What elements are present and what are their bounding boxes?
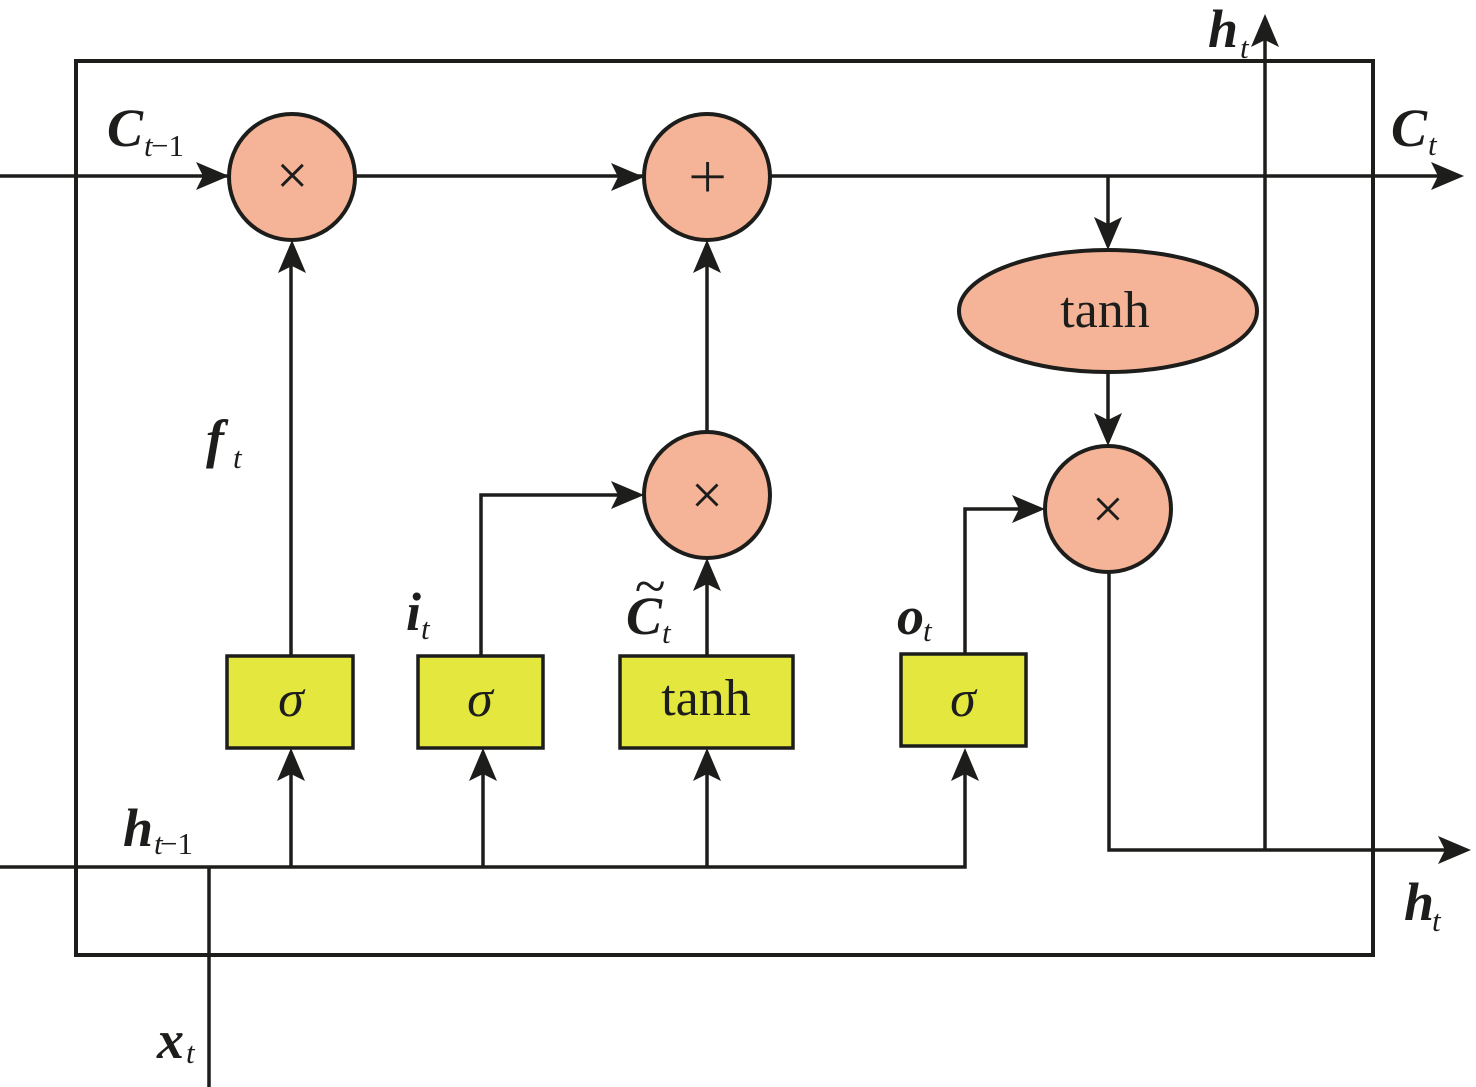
svg-text:t: t (186, 1035, 196, 1070)
svg-text:t: t (1240, 30, 1250, 65)
svg-text:~: ~ (634, 555, 665, 618)
svg-text:t: t (1428, 127, 1438, 162)
svg-text:C: C (1391, 98, 1428, 158)
svg-text:σ: σ (467, 671, 495, 728)
svg-text:h: h (1404, 872, 1434, 932)
svg-text:C: C (107, 98, 144, 158)
svg-text:t: t (421, 611, 431, 646)
svg-text:σ: σ (278, 671, 306, 728)
svg-text:tanh: tanh (1060, 282, 1150, 339)
svg-text:t: t (923, 613, 933, 648)
svg-text:tanh: tanh (661, 670, 751, 727)
svg-text:t: t (233, 440, 243, 475)
svg-text:σ: σ (950, 671, 978, 728)
svg-text:h: h (123, 798, 153, 858)
svg-text:t: t (662, 615, 672, 650)
svg-text:−1: −1 (160, 826, 193, 861)
svg-text:h: h (1208, 0, 1238, 59)
svg-text:o: o (897, 586, 924, 646)
svg-text:t: t (1432, 903, 1442, 938)
svg-text:x: x (156, 1010, 184, 1070)
svg-text:i: i (406, 582, 421, 642)
svg-text:−1: −1 (151, 128, 184, 163)
